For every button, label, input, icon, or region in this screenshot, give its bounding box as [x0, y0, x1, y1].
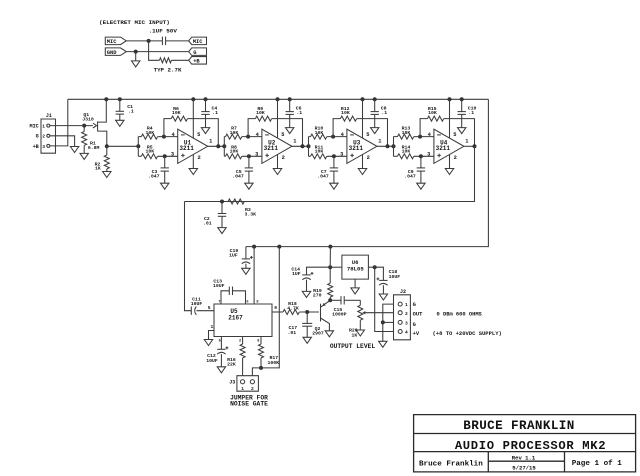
ground (U6) — [351, 288, 359, 294]
pin 2 of J1 — [42, 134, 50, 140]
svg-text:10K: 10K — [230, 149, 239, 155]
text: OUTPUT LEVEL — [330, 343, 376, 350]
svg-text:MIC: MIC — [193, 39, 203, 45]
ref label R17 100K — [268, 355, 280, 366]
svg-text:2: 2 — [239, 340, 241, 344]
wire: input split to R pair — [309, 137, 311, 157]
pin 3 label — [340, 151, 343, 157]
svg-text:10K: 10K — [315, 149, 324, 155]
connector J1 — [41, 113, 56, 153]
ref label R7 10K — [230, 125, 239, 135]
svg-text:G: G — [193, 50, 196, 56]
capacitor C13 10UF (U5 loop) — [221, 287, 246, 304]
value label C3 .047 — [148, 169, 160, 179]
wire: input split to R pair — [224, 137, 225, 157]
wire: U1 output — [208, 145, 225, 147]
svg-text:.047: .047 — [404, 173, 416, 179]
resistor R5 10K — [141, 154, 157, 159]
node: C17 junction — [305, 310, 309, 314]
pin 1 label — [378, 138, 381, 144]
svg-text:5: 5 — [281, 132, 284, 138]
svg-text:J1: J1 — [46, 113, 52, 119]
capacitor C6 .1 (rail bypass) — [286, 97, 294, 127]
ref label R11 10K — [315, 144, 324, 154]
value label C10 .1 — [468, 105, 477, 115]
wire: cap to MIC out — [166, 40, 189, 42]
svg-text:NOISE GATE: NOISE GATE — [230, 400, 268, 407]
svg-text:TYP 2.7K: TYP 2.7K — [154, 66, 182, 73]
node: C2 junction — [220, 200, 224, 204]
wire: U3 output — [377, 145, 394, 147]
ground (J2) — [379, 341, 387, 347]
svg-text:.01: .01 — [288, 330, 297, 336]
feedback wire U2 — [248, 119, 302, 147]
ground (J1 pin2) — [70, 147, 78, 153]
ref label R20 1K — [349, 328, 358, 339]
pin 5 label — [281, 132, 284, 138]
value label C19 1UF — [229, 248, 238, 259]
wire: GND line — [126, 51, 188, 53]
pin 8 label — [256, 301, 258, 305]
ref label R15 10K — [428, 106, 437, 116]
svg-text:GND: GND — [107, 50, 117, 56]
svg-text:4.7K: 4.7K — [287, 305, 299, 311]
text: JUMPER FOR — [230, 395, 268, 402]
svg-text:1: 1 — [378, 138, 381, 144]
svg-text:G: G — [36, 134, 39, 140]
resistor R4 10K — [141, 134, 157, 139]
wire: R8 to non-inverting input — [242, 155, 262, 157]
svg-text:3: 3 — [42, 144, 45, 150]
svg-text:3211: 3211 — [264, 145, 279, 152]
resistor R6 10K (feedback) — [171, 116, 187, 121]
pin 3 of J1 — [42, 144, 50, 150]
value label C15 1000P — [332, 307, 347, 318]
capacitor C9 .047 — [417, 156, 425, 183]
svg-text:1: 1 — [293, 138, 296, 144]
value label C14 1UF — [291, 266, 300, 277]
capacitor C4 .1 (rail bypass) — [201, 97, 209, 127]
svg-text:8: 8 — [256, 301, 258, 305]
node: stage U3 input split — [307, 144, 311, 148]
pin 2 wire to ground — [449, 155, 451, 169]
node: Q1 source node — [105, 144, 109, 148]
wire: R4 to inverting input — [158, 136, 178, 138]
value label C1 .1 — [127, 104, 134, 114]
wire: U4 output — [464, 145, 475, 147]
+5V lower rail node (noise gate) — [277, 245, 281, 249]
value label C13 10UF — [213, 279, 225, 290]
svg-text:2: 2 — [42, 134, 45, 140]
node: U2 output — [301, 144, 305, 148]
svg-text:5/27/15: 5/27/15 — [512, 465, 536, 472]
svg-text:10UF: 10UF — [206, 358, 218, 364]
resistor R8 10K — [226, 154, 242, 159]
ground (C7) — [330, 183, 338, 189]
ref label R6 10K — [172, 106, 181, 116]
wire: R7 to inverting input — [242, 136, 262, 138]
ref label R2 1K — [95, 161, 101, 171]
svg-text:J310: J310 — [82, 116, 94, 122]
pin 2 of J2 — [398, 311, 408, 317]
wire: mic junction down to bias resistor — [149, 41, 160, 60]
pin 2 label — [282, 155, 285, 161]
ground (C18) — [379, 294, 387, 300]
pin 4 label — [256, 132, 260, 138]
svg-text:10K: 10K — [402, 149, 411, 155]
wire: J1 pin3 to +5V rail — [50, 99, 68, 146]
svg-text:BRUCE FRANKLIN: BRUCE FRANKLIN — [463, 419, 574, 433]
pin 1 label — [293, 138, 296, 144]
ref label R3 3.3K — [245, 207, 257, 218]
ground (Q2 collector) — [325, 331, 333, 337]
svg-text:.1: .1 — [468, 110, 474, 116]
svg-text:MIC: MIC — [29, 124, 38, 130]
wire: R3 line down to C11 — [185, 202, 192, 311]
capacitor C18 10UF — [375, 267, 388, 294]
ref label R1 6.8M — [88, 141, 100, 151]
net label OUT — [413, 312, 423, 318]
wire: gnd drop — [135, 52, 137, 61]
capacitor C1 .1 (rail bypass) — [116, 97, 124, 120]
svg-text:1UF: 1UF — [292, 271, 301, 277]
wire: R13 to inverting input — [414, 136, 434, 138]
value label C18 10UF — [389, 269, 401, 280]
connector J2 — [394, 289, 411, 340]
node: stage U2 input split — [222, 144, 226, 148]
ground (C8) — [371, 128, 379, 134]
scan artifact: bottom edge band — [0, 471, 640, 476]
svg-text:1: 1 — [211, 324, 214, 330]
node: U3 output — [386, 144, 390, 148]
ground (C10) — [458, 128, 466, 134]
svg-text:2: 2 — [454, 155, 457, 161]
node: gnd junction — [134, 50, 138, 54]
value label C8 .1 — [381, 105, 388, 115]
text: +8 TO +20VDC SUPPLY — [433, 330, 502, 337]
node: non-inverting input — [332, 154, 336, 158]
ref label R12 10K — [341, 106, 350, 116]
wire: J2 grounds — [383, 304, 394, 341]
svg-text:10K: 10K — [428, 110, 437, 116]
ref label Q2 2907 — [312, 326, 324, 337]
pin 5 power wire — [448, 97, 452, 138]
wire: +5V rail to U6 output node — [328, 245, 332, 268]
svg-text:.1UF 50V: .1UF 50V — [149, 27, 178, 34]
node: J2 pin3 junction — [381, 320, 385, 324]
node: U6 input junction — [373, 265, 377, 269]
ground (C12) — [217, 367, 225, 373]
svg-text:10UF: 10UF — [389, 274, 401, 280]
wire: U6 output — [330, 266, 342, 268]
net label G (J2 pin3) — [413, 322, 416, 328]
svg-text:3: 3 — [405, 321, 408, 327]
op-amp U1 3211 — [178, 129, 208, 163]
wire: J1 pin2 to ground — [50, 136, 75, 147]
svg-text:(+8 TO +20VDC SUPPLY): (+8 TO +20VDC SUPPLY) — [433, 330, 502, 337]
op-amp U3 3211 — [347, 129, 377, 163]
pin 3 label — [255, 151, 258, 157]
text: Bruce Franklin — [419, 460, 483, 468]
transistor Q2 2907 — [321, 300, 331, 331]
svg-text:2167: 2167 — [228, 315, 243, 322]
pin 4 label — [341, 132, 345, 138]
node: U6 output junction — [328, 265, 332, 269]
svg-text:.1: .1 — [212, 110, 218, 116]
node: inverting input — [331, 135, 335, 139]
resistor R7 10K — [226, 134, 242, 139]
ref label Q1 J310 — [82, 112, 94, 122]
wire: +V supply to U6 input — [375, 267, 394, 331]
pin 4 label — [428, 132, 432, 138]
resistor R14 10K — [398, 154, 414, 159]
text: 5/27/15 — [512, 465, 536, 472]
svg-text:5: 5 — [219, 340, 221, 344]
resistor R12 10K (feedback) — [340, 116, 356, 121]
connector G (right) — [189, 48, 207, 56]
node: R17 / J3 junction — [259, 366, 263, 370]
connector J3 (noise gate jumper) — [237, 376, 259, 393]
capacitor C2 .01 — [218, 202, 226, 228]
wire: +5V rail down to lower rail — [246, 99, 489, 246]
node: inverting input — [246, 135, 250, 139]
value label C12 10UF — [206, 353, 218, 364]
capacitor C3 .047 — [161, 156, 169, 183]
ref label R10 10K — [315, 125, 324, 135]
svg-text:1: 1 — [241, 386, 244, 392]
svg-text:J3: J3 — [229, 380, 235, 386]
capacitor C17 .01 — [302, 312, 312, 337]
pin 2 wire to ground — [362, 155, 364, 169]
ref label R19 270 — [313, 288, 322, 299]
resistor TYP 2.7K (mic bias) — [159, 58, 171, 63]
svg-text:1: 1 — [405, 302, 408, 308]
ref label R9 10K — [256, 106, 265, 116]
ref label R16 22K — [227, 357, 236, 368]
node: Q2 emitter / C15 — [328, 298, 332, 302]
ground (pin 2 U4) — [445, 169, 453, 175]
svg-text:Page 1 of 1: Page 1 of 1 — [572, 460, 623, 468]
value label C9 .047 — [404, 169, 416, 179]
pin 1 label — [209, 138, 212, 144]
wire: input split to R pair — [138, 137, 141, 157]
pin 3 label — [171, 151, 174, 157]
resistor R9 10K (feedback) — [255, 116, 271, 121]
IC U5 2167 — [214, 304, 272, 337]
svg-text:270: 270 — [313, 292, 322, 298]
potentiometer R20 1K (output level) — [358, 300, 394, 330]
svg-text:(ELECTRET MIC INPUT): (ELECTRET MIC INPUT) — [99, 19, 170, 26]
capacitor C8 .1 (rail bypass) — [371, 97, 379, 127]
pin 2 wire to ground — [192, 155, 194, 169]
connector MIC (right, to mic element) — [189, 37, 207, 45]
wire: rail down to R17/J3 — [252, 247, 279, 376]
net label G — [36, 134, 39, 140]
ground (C5) — [245, 183, 253, 189]
svg-text:100K: 100K — [268, 360, 280, 366]
regulator U6 78L05 — [342, 255, 369, 279]
svg-text:8: 8 — [257, 340, 259, 344]
pin 5 power wire — [361, 97, 365, 138]
svg-text:10K: 10K — [256, 110, 265, 116]
ref label R13 10K — [402, 125, 411, 135]
capacitor C14 1UF — [302, 267, 330, 291]
node: U4 output — [473, 144, 477, 148]
value label: TYP 2.7K — [154, 66, 182, 73]
wire: J1 pin1 to Q1 gate — [50, 125, 93, 127]
svg-text:OUTPUT LEVEL: OUTPUT LEVEL — [330, 343, 376, 350]
svg-text:.1: .1 — [128, 109, 134, 115]
svg-text:10K: 10K — [230, 130, 239, 136]
resistor R2 1K — [104, 146, 109, 171]
svg-text:3.3K: 3.3K — [245, 212, 257, 218]
wire: R5 to non-inverting input — [158, 155, 178, 157]
node: non-inverting input — [247, 154, 251, 158]
resistor R3 3.3K — [228, 199, 244, 204]
text: 0 DBm 600 OHMS — [437, 312, 483, 318]
svg-text:10UF: 10UF — [213, 283, 225, 289]
pin 1 wire U5 — [209, 331, 215, 340]
wire: U2 output — [292, 145, 309, 147]
svg-text:1UF: 1UF — [229, 253, 238, 259]
pin 4 of J2 — [398, 330, 408, 336]
svg-text:MIC: MIC — [107, 39, 117, 45]
op-amp U4 3211 — [434, 129, 464, 163]
feedback wire U4 — [420, 119, 474, 147]
pin 5 power wire — [276, 97, 280, 138]
wire: R18 to Q2 base — [299, 311, 319, 313]
ground (R20) — [356, 330, 364, 336]
capacitor C19 1UF (rail bypass) — [242, 247, 253, 269]
svg-text:G: G — [413, 302, 416, 308]
ground (C9) — [417, 183, 425, 189]
ground (C19) — [242, 268, 250, 274]
svg-text:2: 2 — [197, 155, 200, 161]
svg-text:7: 7 — [218, 301, 220, 305]
svg-text:10K: 10K — [315, 130, 324, 136]
ref label R4 10K — [145, 125, 154, 135]
svg-text:4: 4 — [405, 330, 408, 336]
ground (R1) — [80, 153, 88, 159]
pin 6 label — [246, 301, 248, 305]
ground (pin 2 U3) — [358, 169, 366, 175]
svg-text:10K: 10K — [145, 130, 154, 136]
ground (pin 2 U2) — [273, 169, 281, 175]
connector MIC (left, input) — [105, 37, 126, 45]
capacitor C15 1000P — [330, 296, 360, 304]
pin 5 label — [366, 132, 369, 138]
net label +V — [413, 331, 420, 337]
svg-text:G: G — [413, 322, 416, 328]
pin 3 of J2 — [398, 320, 408, 326]
svg-text:3: 3 — [171, 151, 174, 157]
wire: resistor to +B — [171, 59, 188, 61]
pin 7 label — [218, 301, 220, 305]
connector +B (right) — [189, 57, 207, 65]
svg-text:Rev 1.1: Rev 1.1 — [512, 455, 536, 462]
resistor R16 22K — [240, 337, 245, 376]
transistor Q1 J310 JFET — [93, 99, 107, 146]
value label C6 .1 — [296, 105, 303, 115]
pin 1 of J2 — [398, 302, 408, 308]
ground (C4) — [201, 128, 209, 134]
svg-text:10UF: 10UF — [191, 301, 203, 307]
svg-text:5: 5 — [197, 132, 200, 138]
svg-text:5: 5 — [366, 132, 369, 138]
ground (C14) — [302, 291, 310, 297]
node: inverting input — [162, 135, 166, 139]
svg-text:5: 5 — [208, 305, 211, 311]
svg-text:78L05: 78L05 — [347, 266, 364, 273]
pin 5 power wire — [191, 97, 195, 138]
wire: MIC to coupling cap — [126, 40, 162, 42]
pin 3 label — [427, 151, 430, 157]
svg-text:1: 1 — [209, 138, 212, 144]
pin 1 label U5 — [211, 324, 214, 330]
node: non-inverting input — [419, 154, 423, 158]
svg-text:+V: +V — [413, 331, 420, 337]
text: electret mic input title — [99, 19, 170, 26]
svg-text:5: 5 — [453, 132, 456, 138]
ref label R5 10K — [145, 144, 154, 154]
svg-text:22K: 22K — [227, 362, 236, 368]
feedback wire U3 — [333, 119, 387, 147]
pin 9 label U5 — [274, 305, 277, 311]
capacitor C11 10UF — [191, 307, 214, 315]
svg-text:3: 3 — [255, 151, 258, 157]
node: mic junction — [147, 39, 151, 43]
capacitor C5 .047 — [245, 156, 253, 183]
svg-text:J2: J2 — [400, 289, 406, 295]
pin 2 label — [367, 155, 370, 161]
svg-text:.1: .1 — [296, 110, 302, 116]
node: stage U1 input split — [136, 144, 140, 148]
value label C5 .047 — [232, 169, 244, 179]
svg-text:.047: .047 — [232, 173, 244, 179]
value label C4 .1 — [212, 105, 219, 115]
resistor R11 10K — [311, 154, 327, 159]
pin 5 label — [197, 132, 200, 138]
svg-text:+B: +B — [193, 59, 200, 65]
text: Page 1 of 1 — [572, 460, 623, 468]
svg-text:Bruce Franklin: Bruce Franklin — [419, 460, 483, 468]
op-amp U2 3211 — [262, 129, 292, 163]
svg-text:1: 1 — [42, 124, 45, 130]
svg-text:2: 2 — [282, 155, 285, 161]
wire: U6 input — [368, 266, 374, 268]
svg-text:+B: +B — [33, 144, 39, 150]
ground (C17) — [303, 337, 311, 343]
ref label J3 — [229, 380, 235, 386]
svg-text:1000P: 1000P — [332, 312, 347, 318]
svg-text:3211: 3211 — [349, 145, 364, 152]
pin 5 label — [453, 132, 456, 138]
wire: source node to stage 1 input — [107, 145, 139, 147]
svg-text:.1: .1 — [381, 110, 387, 116]
ground (U5 pin1) — [204, 340, 212, 346]
svg-text:10K: 10K — [341, 110, 350, 116]
value label C2 .01 — [203, 216, 212, 227]
resistor R19 270 — [328, 267, 333, 300]
svg-text:.047: .047 — [148, 173, 160, 179]
resistor R17 100K — [259, 337, 264, 368]
capacitor C10 .1 (rail bypass) — [458, 97, 466, 127]
svg-text:6: 6 — [246, 301, 248, 305]
resistor R13 10K — [398, 134, 414, 139]
title block frame — [414, 415, 636, 472]
node: inverting input — [418, 135, 422, 139]
value label C17 .01 — [288, 325, 298, 336]
